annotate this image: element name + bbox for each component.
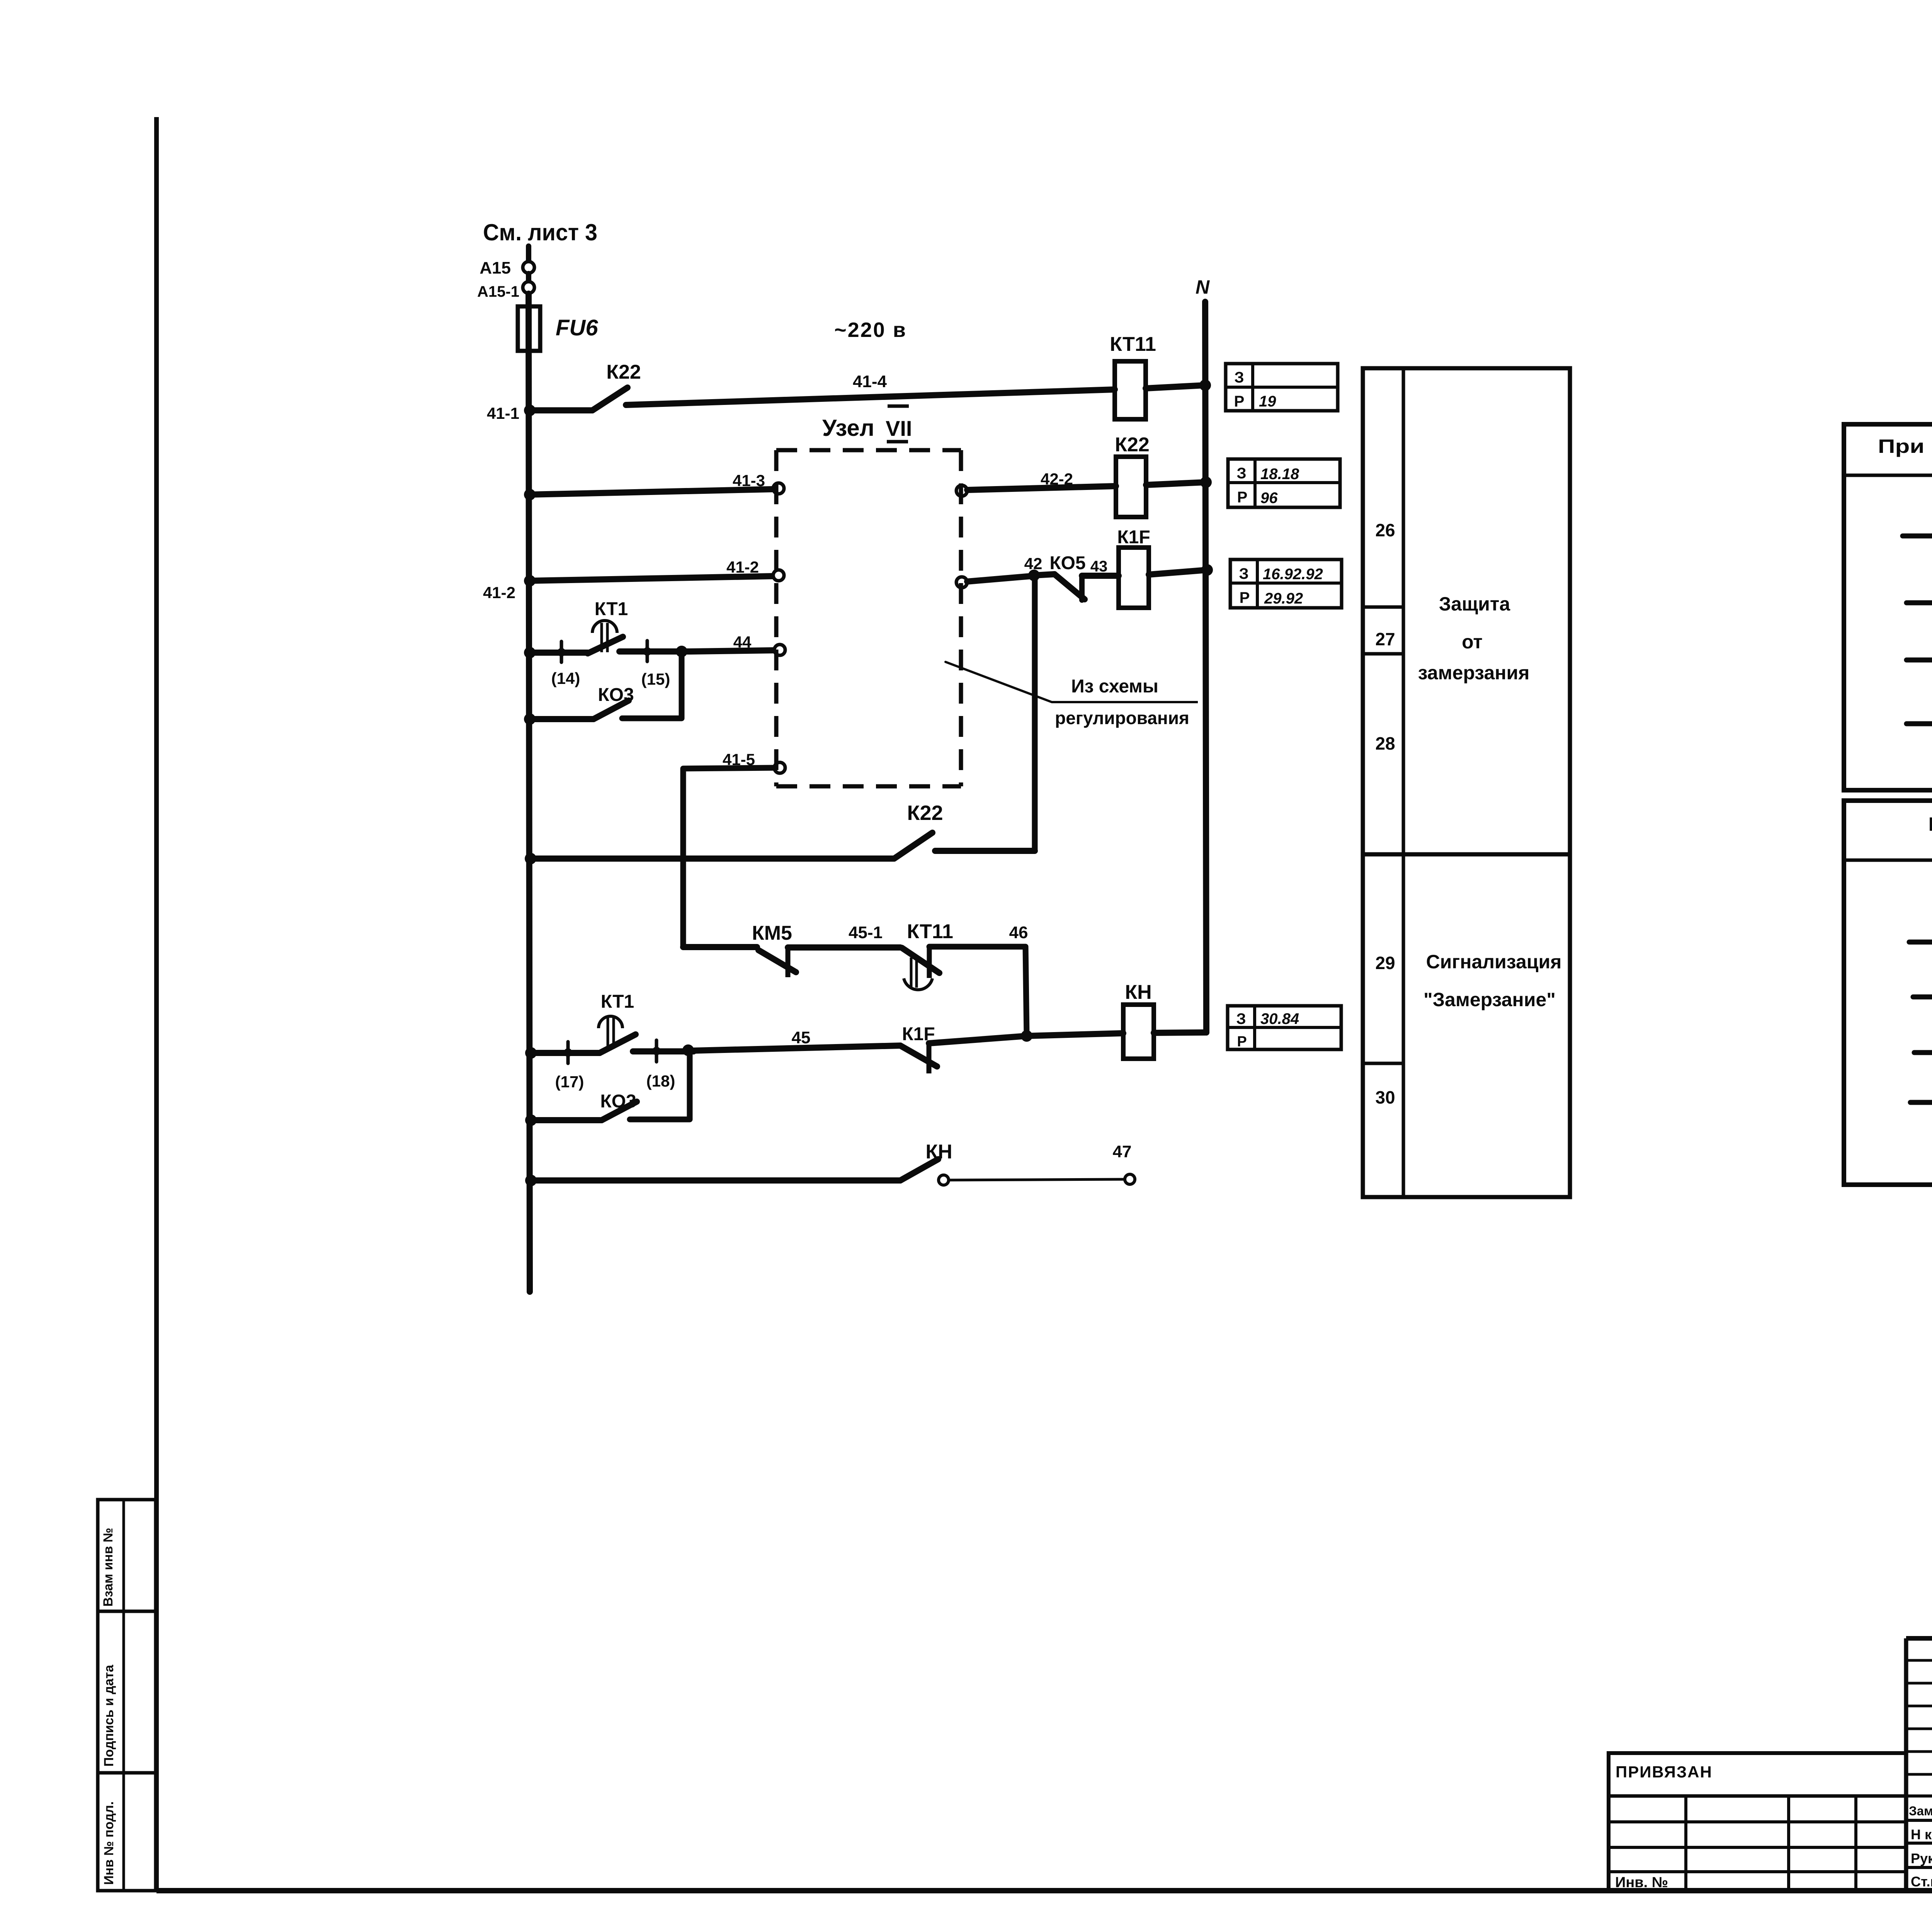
- wire 41-1 to contact K22: [530, 407, 592, 413]
- wire 46 with drop: [929, 923, 1028, 1036]
- svg-text:(14): (14): [551, 669, 580, 687]
- fuse FU6: [518, 306, 598, 351]
- contact K22 (row1): [592, 361, 641, 410]
- wire K22 row right: [935, 848, 1035, 854]
- svg-text:"Замерзание": "Замерзание": [1423, 989, 1556, 1010]
- svg-text:41-1: 41-1: [487, 404, 519, 422]
- svg-text:Сигнализация: Сигнализация: [1426, 951, 1562, 973]
- svg-text:Взам инв №: Взам инв №: [101, 1528, 116, 1607]
- svg-text:КТ11: КТ11: [1110, 333, 1156, 355]
- contact K22 (row K22-2): [894, 801, 943, 859]
- terminal after KN: [939, 1175, 949, 1185]
- terminal 41-3 on node box: [773, 483, 784, 494]
- wire K22 row left: [531, 855, 894, 862]
- svg-text:КО5: КО5: [1049, 553, 1085, 573]
- wire bus stub above A15: [526, 246, 531, 261]
- svg-text:Инв. №: Инв. №: [1615, 1874, 1668, 1891]
- cell text Zashchita ot zamerzaniya: [1418, 593, 1530, 684]
- junction on bus K22 row: [525, 853, 536, 864]
- svg-text:Инв № подл.: Инв № подл.: [102, 1801, 116, 1885]
- svg-text:42-2: 42-2: [1041, 470, 1073, 488]
- wire 41-4: [626, 372, 1115, 405]
- junction on bus row 41-3: [524, 489, 536, 500]
- junction on bus row 44: [524, 647, 536, 658]
- svg-text:~220 в: ~220 в: [834, 318, 907, 342]
- panel 2 header separator: [1844, 859, 1932, 862]
- node 42 junction: [1028, 570, 1040, 581]
- wire 43 to K1F coil: [1082, 573, 1119, 579]
- svg-text:Р: Р: [1237, 489, 1248, 506]
- wire K1F coil to N: [1149, 570, 1207, 575]
- wire KM5 row left: [683, 944, 757, 950]
- wire 42 node down to K22 contact: [1032, 575, 1038, 851]
- svg-text:Защита: Защита: [1439, 593, 1511, 615]
- wire KO3-2 right + riser: [630, 1050, 690, 1119]
- link table row1 (3/R 19): [1226, 364, 1338, 411]
- junction on N bus row1: [1199, 379, 1211, 391]
- svg-text:(18): (18): [646, 1072, 675, 1090]
- svg-text:46: 46: [1009, 923, 1028, 942]
- contact KO3 (upper): [594, 685, 634, 719]
- contact KT11 time-delay: [902, 920, 953, 990]
- side stamp cell (Inv No podl): [98, 1773, 156, 1891]
- sign row Zam nach otd Ostrovskiy: [1909, 1803, 1932, 1820]
- svg-text:регулирования: регулирования: [1055, 708, 1189, 728]
- svg-text:Р: Р: [1234, 393, 1245, 410]
- svg-text:27: 27: [1375, 629, 1395, 649]
- svg-text:КН: КН: [1125, 981, 1151, 1003]
- svg-text:К22: К22: [606, 361, 641, 383]
- svg-text:З: З: [1239, 565, 1248, 582]
- junction KO3 bypass bottom row: [682, 1044, 694, 1056]
- svg-text:Р: Р: [1237, 1034, 1247, 1050]
- svg-text:Р: Р: [1240, 589, 1250, 606]
- sign row N kontr Ogienko: [1911, 1826, 1932, 1844]
- wire 42-2: [967, 470, 1116, 490]
- svg-text:29.92: 29.92: [1264, 590, 1303, 607]
- relay coil K1F: [1117, 527, 1150, 608]
- junction 46/45: [1021, 1030, 1032, 1042]
- svg-text:З: З: [1236, 465, 1246, 482]
- svg-text:41-3: 41-3: [733, 471, 765, 490]
- svg-text:Узел: Узел: [822, 415, 874, 441]
- contact K1F: [900, 1024, 937, 1073]
- svg-text:28: 28: [1375, 733, 1395, 753]
- wire row44 left: [530, 650, 588, 656]
- p1 wire 41-3 lower: [1906, 706, 1932, 724]
- wire K22 coil to N: [1146, 482, 1206, 485]
- svg-text:КТ11: КТ11: [907, 920, 953, 943]
- p1 wire 41-2: [1906, 585, 1932, 603]
- svg-text:VII: VII: [886, 416, 912, 440]
- junction on bus row 41-1: [524, 405, 536, 416]
- wire 41-5 with riser to KM5 row: [683, 750, 774, 947]
- frame left border: [154, 117, 159, 1891]
- wire 42: [967, 554, 1042, 582]
- terminal 42 on node box: [956, 577, 967, 588]
- wire KO3 left: [530, 716, 594, 722]
- svg-text:КО3: КО3: [598, 685, 634, 705]
- junction on bus KO3 row: [524, 713, 536, 725]
- svg-text:К22: К22: [907, 801, 943, 825]
- svg-text:Зам нач отд: Зам нач отд: [1909, 1804, 1932, 1818]
- svg-text:47: 47: [1113, 1142, 1132, 1161]
- sign-off grid: [1906, 1638, 1932, 1891]
- relay coil KT11: [1110, 333, 1156, 419]
- svg-text:FU6: FU6: [556, 315, 598, 340]
- svg-text:26: 26: [1375, 520, 1395, 540]
- note Iz skhemy regulirovaniya: [1052, 676, 1198, 728]
- terminal 41-5 on node box: [774, 762, 785, 773]
- svg-text:19: 19: [1259, 393, 1276, 410]
- link table row2 (18.18/96): [1228, 459, 1340, 507]
- relay coil KN: [1123, 981, 1154, 1059]
- junction on bus KO3-2 row: [525, 1114, 537, 1126]
- contact KO5: [1034, 553, 1107, 600]
- svg-text:замерзания: замерзания: [1418, 662, 1530, 684]
- svg-text:45-1: 45-1: [849, 923, 883, 942]
- p2 wire 41-3: [1909, 924, 1932, 942]
- svg-text:Рук.гр.: Рук.гр.: [1911, 1850, 1932, 1866]
- terminal mark (17): [555, 1042, 584, 1091]
- terminal A15: [480, 259, 534, 277]
- junction on N bus row3: [1201, 564, 1213, 576]
- wire K1F to KN coil: [929, 1036, 1027, 1043]
- svg-text:КТ1: КТ1: [595, 599, 628, 619]
- wire row44 mid: [619, 648, 690, 655]
- wire KN row: [531, 1177, 900, 1184]
- panel 2 box: [1844, 801, 1932, 1185]
- privyazan table: [1609, 1753, 1906, 1891]
- sign row St inzh Davidson: [1911, 1873, 1932, 1891]
- terminal 42-2 on node box: [956, 485, 967, 496]
- terminal 44 on node box: [774, 645, 785, 655]
- cell text Signalizatsiya Zamerzanie: [1423, 951, 1561, 1010]
- link table row3 (16.92.92/29.92): [1230, 560, 1342, 608]
- wire to KN coil: [1027, 1033, 1123, 1036]
- side stamp cell (Vzam inv No): [98, 1500, 156, 1611]
- junction KO3 bypass top: [676, 646, 687, 657]
- svg-text:ПРИВЯЗАН: ПРИВЯЗАН: [1616, 1763, 1713, 1781]
- svg-text:41-2: 41-2: [726, 558, 759, 576]
- svg-text:КМ5: КМ5: [752, 922, 792, 944]
- wire KO3 right + riser: [622, 651, 682, 718]
- svg-text:КН: КН: [925, 1141, 952, 1163]
- svg-text:К1F: К1F: [1117, 527, 1150, 548]
- svg-text:При отсутствии на объекте: При отсутствии на объекте: [1928, 813, 1932, 835]
- terminal 47: [1125, 1174, 1135, 1184]
- svg-text:96: 96: [1260, 490, 1278, 507]
- leader line to note: [946, 662, 1052, 702]
- svg-text:Из схемы: Из схемы: [1071, 676, 1158, 697]
- terminal 41-2 on node box: [773, 570, 784, 581]
- wire N bus vertical: [1205, 302, 1206, 1032]
- contact KN: [900, 1141, 952, 1180]
- title block top line: [1906, 1636, 1932, 1641]
- svg-text:З: З: [1234, 369, 1244, 386]
- p1 wire 44: [1906, 642, 1932, 660]
- svg-text:43: 43: [1090, 558, 1108, 575]
- panel 2 header text: [1928, 813, 1932, 857]
- panel 1 header separator: [1844, 474, 1932, 477]
- wire row45 left: [531, 1050, 600, 1056]
- label Uzel VII: [822, 406, 912, 442]
- terminal mark (14): [551, 641, 580, 687]
- junction on bus row 45: [525, 1047, 537, 1059]
- svg-text:К22: К22: [1115, 434, 1150, 456]
- svg-text:А15: А15: [480, 259, 511, 277]
- wire 47 thin: [949, 1142, 1131, 1180]
- junction on N bus row2: [1200, 476, 1212, 488]
- svg-text:А15-1: А15-1: [477, 283, 519, 300]
- p2 wire 41-5: [1910, 1084, 1932, 1102]
- svg-text:З: З: [1236, 1010, 1246, 1027]
- contact KT1 (row44) time-delay: [588, 599, 628, 653]
- svg-text:Подпись и дата: Подпись и дата: [102, 1664, 116, 1767]
- svg-text:(17): (17): [555, 1073, 584, 1091]
- contact KM5: [752, 922, 796, 977]
- svg-text:44: 44: [733, 633, 752, 651]
- wire 44 to node box: [690, 633, 774, 651]
- svg-text:См. лист 3: См. лист 3: [483, 219, 597, 245]
- svg-text:N: N: [1196, 276, 1210, 298]
- contact KO3 (lower): [600, 1091, 637, 1120]
- wire 45-1: [788, 923, 900, 947]
- terminal A15-1: [477, 274, 534, 300]
- svg-text:45: 45: [792, 1028, 811, 1047]
- junction on bus KN row: [525, 1175, 537, 1186]
- side stamp cell (Podpis i data): [98, 1611, 156, 1773]
- svg-text:18.18: 18.18: [1260, 466, 1299, 483]
- svg-text:41-2: 41-2: [483, 583, 515, 602]
- p2 wire 44: [1914, 1034, 1932, 1053]
- svg-text:Н контр: Н контр: [1911, 1827, 1932, 1842]
- sign row Ruk gr Ginodman: [1911, 1850, 1932, 1867]
- terminal mark (15): [641, 641, 670, 688]
- contact KT1 (row45) time-delay: [599, 992, 636, 1053]
- p1 wire 41-3: [1903, 518, 1932, 536]
- svg-text:При наличии циркуляционного: При наличии циркуляционного: [1878, 435, 1932, 457]
- terminal mark (18): [646, 1040, 675, 1090]
- svg-text:КТ1: КТ1: [601, 992, 634, 1012]
- p2 wire 41-2: [1913, 979, 1932, 997]
- svg-text:16.92.92: 16.92.92: [1263, 566, 1323, 583]
- wire 41-2: [530, 558, 773, 581]
- wire left bus vertical: [529, 294, 530, 1292]
- node box Uzel VII dashed outline: [776, 450, 961, 786]
- svg-text:от: от: [1462, 631, 1483, 653]
- svg-text:(15): (15): [641, 670, 670, 688]
- wire row45 mid: [633, 1048, 694, 1054]
- wire 41-3: [530, 471, 773, 495]
- wire 45: [694, 1028, 900, 1051]
- svg-text:29: 29: [1375, 953, 1395, 973]
- wire KN coil to N bus: [1154, 1032, 1206, 1033]
- svg-text:41-5: 41-5: [723, 750, 755, 769]
- panel 1 header text: [1878, 435, 1932, 477]
- svg-text:30: 30: [1375, 1087, 1395, 1107]
- svg-text:Ст.инж: Ст.инж: [1911, 1874, 1932, 1889]
- relay coil K22: [1115, 434, 1150, 517]
- panel 1 box: [1844, 424, 1932, 790]
- function table outline: [1363, 368, 1570, 1197]
- svg-text:41-4: 41-4: [853, 372, 887, 391]
- link table row KN (30.84): [1228, 1006, 1341, 1050]
- wire KT11 to N: [1146, 385, 1205, 388]
- svg-text:КО3: КО3: [600, 1091, 636, 1112]
- junction on bus row 41-2: [524, 575, 536, 587]
- wire KO3-2 left: [531, 1117, 602, 1123]
- frame bottom border: [156, 1888, 1932, 1893]
- svg-text:30.84: 30.84: [1260, 1010, 1299, 1027]
